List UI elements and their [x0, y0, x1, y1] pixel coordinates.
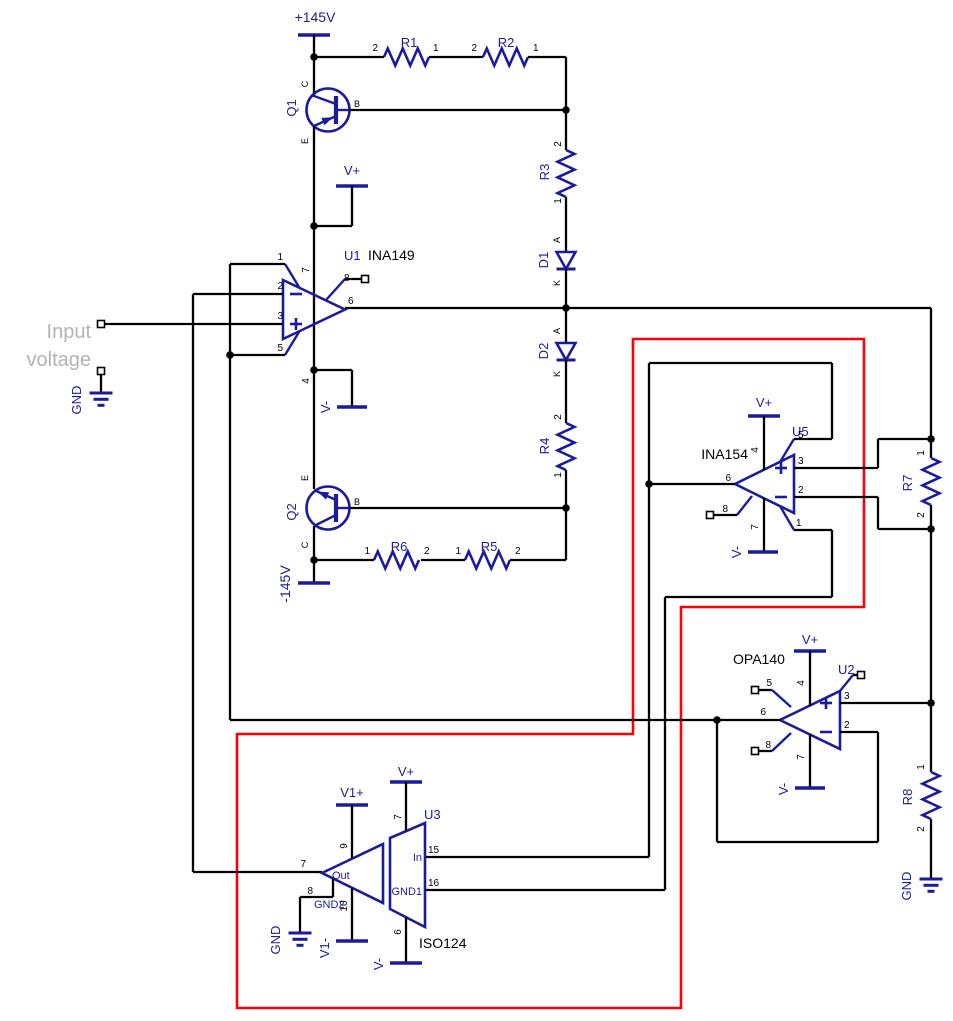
- svg-text:6: 6: [725, 473, 731, 484]
- svg-text:INA149: INA149: [368, 247, 415, 263]
- svg-text:1: 1: [277, 252, 283, 263]
- svg-text:1: 1: [455, 546, 461, 557]
- wire pin1 net down to ISO GND1: [664, 597, 666, 890]
- wire pin2 to R7 bottom: [878, 528, 931, 530]
- svg-text:V-: V-: [318, 401, 333, 413]
- power V- (U5): [748, 550, 778, 554]
- wire +145V to R1 pin2: [314, 56, 384, 58]
- wire R5 pin1 to R6 pin2: [421, 559, 465, 561]
- wire U3 pin10: [351, 888, 353, 941]
- wire U2 pin2 right: [840, 731, 878, 733]
- power V1-: [336, 939, 368, 943]
- wire U5 pin1 net horiz: [794, 529, 832, 531]
- wire U1 pin2 vertical to ISO124 out: [192, 294, 194, 872]
- junction node U2 out/feedback: [713, 716, 721, 724]
- wire U2 pin5: [758, 689, 772, 691]
- wire V- stem: [351, 370, 353, 407]
- svg-text:C: C: [300, 80, 310, 87]
- junction node R7 pin1: [927, 435, 935, 443]
- wire R7 lead bottom: [930, 505, 932, 529]
- svg-text:Out: Out: [332, 870, 350, 882]
- wire U5 pin3 right: [794, 467, 878, 469]
- wire rail to V-: [314, 369, 352, 371]
- transistor Q2: [307, 487, 350, 530]
- resistor R8: [923, 772, 940, 819]
- svg-text:1: 1: [916, 450, 927, 456]
- wire U5 pin4: [763, 416, 765, 470]
- wire U3 pin8 down: [332, 878, 334, 897]
- wire V+ to rail: [314, 225, 352, 227]
- resistor R2: [483, 49, 528, 66]
- power V- (U1): [337, 405, 367, 409]
- wire +145V stem: [313, 35, 315, 57]
- svg-text:A: A: [552, 237, 562, 243]
- wire D1 cathode to node: [565, 269, 567, 343]
- svg-text:2: 2: [916, 826, 927, 832]
- svg-text:7: 7: [750, 524, 761, 530]
- wire to ISO124 GND1 pin: [425, 889, 665, 891]
- svg-text:V-: V-: [776, 783, 791, 795]
- power V- (U3): [390, 961, 422, 965]
- port U2 pin1: [858, 672, 865, 679]
- wire Q1 base to column: [350, 109, 566, 111]
- wire R8 to GND: [930, 819, 932, 879]
- svg-text:GND: GND: [899, 872, 914, 901]
- wire U3 bottom supply: [405, 917, 407, 963]
- wire U1 pin2 left: [193, 293, 283, 295]
- svg-text:U3: U3: [424, 807, 441, 822]
- ground (U3 GND2): [289, 932, 312, 935]
- resistor R1: [384, 49, 429, 66]
- svg-text:6: 6: [760, 707, 766, 718]
- svg-text:D1: D1: [536, 252, 551, 269]
- wire corner to R5 pin2: [510, 559, 566, 561]
- svg-text:B: B: [354, 497, 360, 507]
- wire R6 pin1 to -145V node: [314, 559, 374, 561]
- svg-text:B: B: [354, 99, 360, 109]
- svg-text:-145V: -145V: [277, 565, 293, 603]
- port U2 pin8: [752, 748, 759, 755]
- junction node V+/U1 pin7 rail: [310, 222, 318, 230]
- svg-text:V+: V+: [344, 163, 360, 178]
- port U2 pin5: [752, 687, 759, 694]
- svg-text:2: 2: [277, 281, 283, 292]
- svg-text:4: 4: [796, 680, 807, 686]
- wire ISO124 out horizontal: [193, 871, 322, 873]
- svg-text:2: 2: [798, 485, 804, 496]
- wire U2 pin7: [809, 734, 811, 788]
- svg-text:R1: R1: [401, 35, 418, 50]
- wire Q2 collector: [313, 526, 315, 583]
- wire R2 pin1 to R3 corner: [528, 56, 566, 58]
- port U5 pin8: [707, 512, 714, 519]
- ground (right): [920, 878, 943, 881]
- svg-text:A: A: [552, 328, 562, 334]
- svg-text:3: 3: [844, 691, 850, 702]
- svg-text:8: 8: [307, 886, 313, 897]
- wire U5 pin7: [763, 498, 765, 552]
- svg-text:1: 1: [364, 546, 370, 557]
- power -145V: [298, 581, 330, 585]
- wire U3 pin8 left: [300, 896, 333, 898]
- svg-text:5: 5: [277, 343, 283, 354]
- svg-text:2: 2: [553, 141, 564, 147]
- svg-text:15: 15: [428, 845, 440, 856]
- op-amp U2: [780, 691, 840, 749]
- svg-text:1: 1: [553, 198, 564, 204]
- wire U3 pin8 to gnd: [299, 897, 301, 933]
- svg-text:16: 16: [428, 878, 440, 889]
- wire U3 pin9: [351, 805, 353, 858]
- junction node V-/U1 pin4 rail: [310, 366, 318, 374]
- wire R7 lead top: [930, 439, 932, 458]
- svg-text:V+: V+: [756, 395, 772, 410]
- svg-text:+145V: +145V: [295, 9, 337, 25]
- wire output down right edge: [930, 308, 932, 439]
- svg-text:C: C: [300, 541, 310, 548]
- svg-text:In: In: [413, 852, 422, 864]
- wire U5 pin2 right: [794, 496, 878, 498]
- svg-text:R8: R8: [900, 789, 915, 806]
- svg-text:1: 1: [553, 472, 564, 478]
- port U1 pin8: [362, 276, 369, 283]
- iso-amp U3 triangle: [322, 844, 383, 903]
- svg-text:OPA140: OPA140: [733, 651, 785, 667]
- transistor Q1: [307, 89, 350, 132]
- wire pin3 up: [877, 439, 879, 468]
- wire (red highlighted net loop): [237, 339, 864, 1008]
- wire U1 pin8: [345, 278, 362, 280]
- wire R8 lead top: [930, 703, 932, 772]
- wire U5 pin5 net horiz: [794, 438, 832, 440]
- wire Q2 base to column: [350, 507, 566, 509]
- svg-text:1: 1: [433, 43, 439, 54]
- diode D2: [557, 343, 576, 360]
- wire pin5 net down to ISO In: [648, 363, 650, 857]
- power V- (U2): [795, 786, 825, 790]
- svg-text:V+: V+: [398, 764, 414, 779]
- wire U1 pin5: [230, 354, 285, 356]
- svg-text:GND: GND: [268, 926, 283, 955]
- wire R4 to Q2 base node: [565, 470, 567, 560]
- svg-text:3: 3: [798, 456, 804, 467]
- junction node Q2-B/R4: [562, 504, 570, 512]
- wire U2 output to U1 pins 1-5: [230, 719, 780, 721]
- svg-text:K: K: [552, 280, 562, 286]
- resistor R5: [465, 552, 510, 569]
- svg-text:R7: R7: [900, 475, 915, 492]
- wire pin1 net bottom edge: [665, 596, 832, 598]
- wire U1 pin1 left: [230, 263, 285, 265]
- svg-text:Q2: Q2: [284, 503, 299, 520]
- svg-text:7: 7: [301, 267, 312, 273]
- svg-text:2: 2: [372, 43, 378, 54]
- wire Q1 emitter down to Q2 emitter: [313, 126, 315, 489]
- svg-text:4: 4: [301, 378, 312, 384]
- wire U2 pin1: [853, 674, 858, 676]
- svg-text:R4: R4: [537, 438, 552, 455]
- junction node D1/D2/U1-out: [562, 304, 570, 312]
- svg-text:V-: V-: [729, 546, 744, 558]
- wire Q1 collector: [313, 57, 315, 97]
- diode D1: [557, 252, 576, 269]
- wire feedback bottom: [717, 841, 878, 843]
- wire U5 pin8: [713, 514, 737, 516]
- wire feedback down: [877, 732, 879, 842]
- svg-text:V1+: V1+: [340, 785, 364, 800]
- svg-text:4: 4: [750, 447, 761, 453]
- svg-text:3: 3: [277, 311, 283, 322]
- svg-text:8: 8: [722, 504, 728, 515]
- wire R3 to D1 anode: [565, 197, 567, 252]
- wire gnd stem: [100, 375, 102, 393]
- svg-text:R5: R5: [481, 539, 498, 554]
- svg-text:ISO124: ISO124: [419, 935, 467, 951]
- resistor R4: [558, 423, 575, 470]
- svg-text:2: 2: [471, 43, 477, 54]
- junction node U2 pin3/R8: [927, 699, 935, 707]
- svg-text:2: 2: [515, 546, 521, 557]
- svg-text:V+: V+: [802, 632, 818, 647]
- svg-text:6: 6: [348, 296, 354, 307]
- junction node Q1-B/R2-R3: [562, 106, 570, 114]
- svg-text:2: 2: [553, 414, 564, 420]
- wire U5 pin6 output: [649, 483, 735, 485]
- wire R7 to R8 node: [930, 529, 932, 703]
- svg-text:1: 1: [533, 43, 539, 54]
- wire U1 pin1/pin5 vertical to U2 output net: [229, 264, 231, 720]
- svg-text:GND1: GND1: [391, 886, 422, 898]
- svg-text:7: 7: [300, 859, 306, 870]
- svg-text:8: 8: [765, 740, 771, 751]
- svg-text:1: 1: [916, 764, 927, 770]
- wire U2 pin4: [809, 651, 811, 706]
- wire down to R3: [565, 57, 567, 150]
- svg-text:7: 7: [393, 814, 404, 820]
- resistor R3: [558, 150, 575, 197]
- svg-text:7: 7: [796, 754, 807, 760]
- wire pin5 net up: [831, 363, 833, 439]
- wire to ISO124 In pin: [425, 856, 649, 858]
- svg-text:U2: U2: [838, 662, 855, 677]
- ground (input): [90, 392, 113, 395]
- wire U1 output: [345, 307, 931, 309]
- wire U3 top supply: [405, 782, 407, 831]
- junction node U1 pin5 tap: [226, 351, 234, 359]
- wire pin1 net down: [831, 530, 833, 597]
- wire pin5 net top edge: [649, 362, 832, 364]
- svg-text:R3: R3: [537, 164, 552, 181]
- svg-text:2: 2: [916, 512, 927, 518]
- iso-amp U3 barrier/trapezoid: [390, 823, 425, 927]
- svg-text:voltage: voltage: [27, 349, 92, 371]
- op-amp U1: [283, 280, 345, 339]
- wire feedback up: [716, 720, 718, 842]
- wire pin3 to R7 top: [878, 438, 931, 440]
- wire R1 pin1 to R2 pin2: [429, 56, 483, 58]
- svg-text:V1-: V1-: [317, 938, 332, 958]
- svg-text:E: E: [300, 475, 310, 481]
- port input voltage: [98, 321, 105, 328]
- svg-text:Q1: Q1: [284, 99, 299, 116]
- wire U2 pin8: [758, 750, 772, 752]
- svg-text:9: 9: [339, 843, 350, 849]
- svg-text:2: 2: [424, 546, 430, 557]
- wire D2 cathode to R4: [565, 360, 567, 423]
- resistor R6: [374, 552, 419, 569]
- junction node Q2-C/R6/-145V: [310, 556, 318, 564]
- junction node R7 pin2: [927, 525, 935, 533]
- junction node +145V/R1/Q1-C: [310, 53, 318, 61]
- svg-text:R2: R2: [498, 35, 515, 50]
- svg-text:5: 5: [766, 678, 772, 689]
- junction node U5 out: [645, 480, 653, 488]
- svg-text:K: K: [552, 371, 562, 377]
- svg-text:V-: V-: [371, 958, 386, 970]
- wire input to U1 pin3: [105, 323, 283, 325]
- svg-text:E: E: [300, 138, 310, 144]
- wire U2 pin3 to R8 node: [840, 702, 931, 704]
- op-amp U5: [735, 455, 794, 513]
- svg-text:R6: R6: [391, 539, 408, 554]
- svg-text:6: 6: [393, 929, 404, 935]
- resistor R7: [923, 458, 940, 505]
- svg-text:GND: GND: [69, 386, 84, 415]
- svg-text:Input: Input: [47, 321, 92, 343]
- wire V+ stem: [351, 186, 353, 226]
- port input gnd: [98, 368, 105, 375]
- svg-text:U1: U1: [344, 248, 361, 263]
- svg-text:D2: D2: [536, 343, 551, 360]
- svg-text:2: 2: [844, 720, 850, 731]
- svg-text:INA154: INA154: [701, 446, 748, 462]
- wire pin2 down: [877, 497, 879, 529]
- svg-text:1: 1: [796, 518, 802, 529]
- svg-text:GND2: GND2: [314, 899, 345, 911]
